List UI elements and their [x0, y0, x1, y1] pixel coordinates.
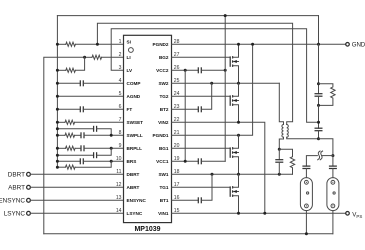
terminal GND	[346, 43, 350, 47]
node: lamp feed junction	[331, 154, 334, 157]
wire: BG2 to Q1 gate	[172, 56, 231, 58]
capacitor C9 (pin9 BRPLL series)	[80, 145, 82, 151]
node: rail row8	[56, 134, 59, 137]
wire: TG2 to Q2 gate	[172, 95, 231, 97]
svg-text:COMP: COMP	[127, 81, 141, 86]
resistor R-snubber	[279, 149, 294, 174]
transistor Q3 (high FET ch1)	[229, 147, 231, 157]
node: pin9 junction	[110, 147, 113, 150]
capacitor C-VCC2	[172, 69, 199, 71]
wire: VIN1 / VPS line	[172, 212, 346, 214]
capacitor C9b (pin9 BRPLL parallel)	[57, 154, 93, 156]
svg-text:VCC2: VCC2	[156, 68, 169, 73]
node: IC orientation mark	[129, 48, 134, 53]
svg-text:6: 6	[119, 104, 122, 110]
transistor Q2 (low FET ch2)	[229, 95, 231, 105]
transistor Q1 (high FET ch2)	[229, 56, 231, 66]
node: SW1 FET junction	[237, 173, 240, 176]
wire: PGND2 / GND line	[172, 43, 346, 45]
wire: pin5 AGND to rail	[57, 95, 123, 97]
capacitor C-ballast	[315, 127, 323, 129]
terminal ENSYNC	[27, 198, 31, 202]
node: rail row10b	[56, 166, 59, 169]
wire: BG1 to Q3 gate	[172, 147, 231, 149]
wire: bus B from pin1 node to transformer secondary top	[97, 23, 292, 124]
node: GND sense top	[317, 43, 320, 46]
wire: SW2 down to transformer primary	[279, 83, 283, 124]
svg-text:7: 7	[119, 117, 122, 123]
node: rail row10	[56, 160, 59, 163]
svg-text:TG2: TG2	[159, 94, 168, 99]
node: PGND1 FET drain	[237, 134, 240, 137]
node: PGND1 to GND	[251, 43, 254, 46]
svg-text:5: 5	[119, 91, 122, 97]
wire: lamp2 return	[332, 211, 334, 234]
node: LI junction	[83, 56, 86, 59]
svg-text:PGND2: PGND2	[153, 42, 169, 47]
node: VCC2 cap to ground drop	[224, 69, 227, 72]
svg-text:ABRT: ABRT	[8, 184, 25, 191]
wire: sense to ballast node	[318, 105, 320, 128]
terminal LSYNC	[27, 211, 31, 215]
node: rail row4	[56, 82, 59, 85]
wire: ENSYNC to pin13	[30, 199, 123, 201]
svg-text:BT2: BT2	[160, 107, 169, 112]
node: bus C junction	[317, 121, 320, 124]
wire: PGND1 line	[172, 44, 253, 135]
capacitor C-snubber	[278, 149, 280, 160]
node: pin1 junction	[96, 43, 99, 46]
node: ground drop top	[224, 14, 227, 17]
transistor Q4 (low FET ch1)	[229, 186, 231, 196]
wire: ground drop vertical	[224, 16, 226, 162]
svg-text:BRPLL: BRPLL	[127, 146, 143, 151]
svg-text:LSYNC: LSYNC	[127, 211, 143, 216]
wire: SW2 line	[172, 82, 280, 84]
wire: bus C from LV jog to HV cap node	[111, 29, 318, 123]
svg-text:DBRT: DBRT	[8, 171, 25, 178]
capacitor C8b (pin8 SWPLL parallel)	[57, 128, 93, 130]
terminal DBRT	[27, 172, 31, 176]
svg-text:BRS: BRS	[127, 159, 137, 164]
wire: VIN2 line	[172, 122, 265, 213]
wire: TG1 to Q4 gate	[172, 186, 231, 188]
svg-text:DBRT: DBRT	[127, 172, 140, 177]
wire: GND down to sense RC	[318, 44, 320, 93]
transformer T1 secondary winding	[287, 125, 289, 138]
wire: pin1 to IC	[75, 43, 123, 45]
wire: lamp feed to lamp1	[322, 155, 333, 157]
capacitor C-VCC1	[172, 160, 199, 162]
node: SW1 snubber cap	[278, 173, 281, 176]
node: connector to lamps	[318, 151, 320, 160]
node: VIN1 FET source	[237, 212, 240, 215]
svg-text:VCC1: VCC1	[156, 159, 169, 164]
node: VCC1 tap	[184, 160, 187, 163]
lamp CCFL1	[300, 178, 312, 211]
svg-text:VIN2: VIN2	[158, 120, 169, 125]
svg-text:VIN1: VIN1	[158, 211, 169, 216]
wire: pin2 to IC	[102, 56, 124, 58]
svg-text:LI: LI	[127, 55, 131, 60]
node: rail row6	[56, 108, 59, 111]
wire: VCC tie vertical	[184, 70, 186, 161]
svg-text:TG1: TG1	[159, 185, 168, 190]
capacitor C-BT2 bootstrap	[172, 108, 199, 110]
svg-text:4: 4	[119, 78, 122, 84]
wire: secondary bottom to HV node	[287, 137, 319, 139]
node: HV node	[317, 137, 320, 140]
svg-text:BT1: BT1	[160, 198, 169, 203]
wire: left ground rail vertical	[56, 16, 58, 168]
node: sense RC bottom	[317, 104, 320, 107]
wire: primary bottom to snubber node	[279, 137, 283, 149]
capacitor C6 (pin6 FT)	[57, 108, 80, 110]
resistor R-sense	[319, 84, 336, 106]
resistor R8 (pin8 SWPLL)	[57, 134, 65, 136]
node: rail row8b	[56, 127, 59, 130]
terminal ABRT	[27, 185, 31, 189]
capacitor C4 (pin4 COMP)	[57, 82, 80, 84]
resistor R9 (pin9 BRPLL)	[57, 147, 65, 149]
svg-text:9: 9	[119, 143, 122, 149]
wire: ground bus top horizontal	[57, 15, 318, 17]
wire: HV node to lamp feed	[319, 139, 333, 156]
capacitor C-BT1 bootstrap	[172, 199, 199, 201]
node: rail row9b	[56, 154, 59, 157]
terminal VPS	[346, 212, 350, 216]
svg-text:SW1: SW1	[158, 172, 168, 177]
svg-text:ENSYNC: ENSYNC	[0, 197, 25, 204]
node: sense RC top	[317, 82, 320, 85]
svg-text:FT: FT	[127, 107, 133, 112]
wire: DBRT to pin11	[30, 173, 123, 175]
svg-text:LV: LV	[127, 68, 133, 73]
resistor R2 (pin2 LI)	[85, 56, 92, 58]
svg-text:SI: SI	[127, 40, 131, 45]
resistor R7 (pin7 SWSET)	[57, 121, 65, 123]
node: VCC2 tap	[184, 69, 187, 72]
resistor R10 (pin10 BRS parallel)	[57, 166, 65, 168]
svg-text:SWSET: SWSET	[127, 120, 144, 125]
svg-text:2: 2	[119, 52, 122, 58]
wire: bottom return rail	[44, 233, 333, 235]
node: pin10 junction	[110, 160, 113, 163]
svg-text:BG1: BG1	[159, 146, 169, 151]
svg-text:11: 11	[116, 169, 121, 175]
capacitor C-lamp1	[302, 165, 310, 167]
svg-text:MP1039: MP1039	[134, 226, 160, 233]
capacitor C8 (pin8 SWPLL series)	[80, 132, 82, 138]
transformer T1 primary winding	[282, 125, 284, 138]
svg-text:1: 1	[119, 39, 122, 45]
node: lamp1 return junction	[305, 232, 308, 235]
svg-text:LSYNC: LSYNC	[4, 210, 26, 217]
node: rail row1	[56, 43, 59, 46]
capacitor C-sense	[315, 93, 323, 95]
svg-text:AGND: AGND	[127, 94, 141, 99]
resistor R3 (pin3 LV)	[57, 69, 65, 71]
svg-text:12: 12	[116, 182, 122, 188]
svg-text:GND: GND	[352, 41, 365, 48]
svg-text:ENSYNC: ENSYNC	[127, 198, 147, 203]
wire: LSYNC to pin14	[30, 212, 123, 214]
node: SW2 FET junction	[237, 82, 240, 85]
svg-text:BG2: BG2	[159, 55, 169, 60]
op-amp U1 MP1039 IC body	[124, 35, 172, 222]
wire: LI input vertical from bottom rail	[44, 57, 85, 234]
svg-text:10: 10	[116, 156, 122, 162]
svg-text:3: 3	[119, 65, 122, 71]
node: SW1 bootstrap	[211, 173, 214, 176]
node: snubber top	[278, 148, 281, 151]
wire: SW1 line	[172, 173, 293, 175]
wire: ABRT to pin12	[30, 186, 123, 188]
svg-text:PS: PS	[356, 214, 362, 219]
svg-text:ABRT: ABRT	[127, 185, 140, 190]
node: rail row9	[56, 147, 59, 150]
node: Q1 drain on GND	[237, 43, 240, 46]
node: rail row5	[56, 95, 59, 98]
wire: R3 up to LI node	[75, 57, 84, 70]
svg-text:13: 13	[116, 195, 122, 201]
svg-text:SW2: SW2	[158, 81, 168, 86]
node: SW2 bootstrap	[210, 82, 213, 85]
svg-text:14: 14	[116, 208, 122, 214]
capacitor C10 (pin10 BRS)	[57, 160, 80, 162]
svg-text:8: 8	[119, 130, 122, 136]
svg-text:PGND1: PGND1	[153, 133, 169, 138]
node: VIN2 tie	[263, 212, 266, 215]
wire: lamp1 return	[305, 211, 307, 234]
node: rail row7	[56, 121, 59, 124]
capacitor C-lamp2	[332, 156, 334, 167]
lamp CCFL2	[327, 178, 339, 211]
node: pin8 junction	[110, 134, 113, 137]
node: VIN2 FET source	[237, 121, 240, 124]
node: rail row3	[56, 69, 59, 72]
resistor R1 (pin1 SI)	[57, 43, 65, 45]
wire: ground bus right vertical down to GND line	[318, 16, 320, 45]
svg-text:SWPLL: SWPLL	[127, 133, 143, 138]
